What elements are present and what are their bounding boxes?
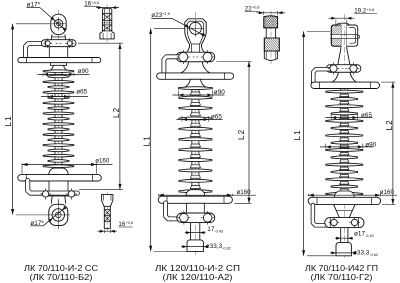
dimension ø160 (insulator 3) bbox=[308, 189, 397, 197]
dimension ø160 (insulator 1) bbox=[22, 158, 113, 174]
svg-text:ø160: ø160 bbox=[95, 158, 110, 165]
dimension L1 (insulator 2) bbox=[142, 28, 187, 251]
insulator 2 bottom arc-horn tube bbox=[166, 203, 182, 219]
insulator 1 core rod bbox=[55, 62, 62, 176]
svg-text:(ЛК 70/110-Г2): (ЛК 70/110-Г2) bbox=[311, 272, 373, 282]
insulator 1 bottom arc-horn tube bbox=[28, 181, 78, 194]
insulator 3 bottom bracket bolts bbox=[329, 217, 360, 228]
dimension ø65 (insulator 3) bbox=[326, 112, 373, 119]
dimension ø65 (insulator 1) bbox=[41, 88, 88, 98]
insulator 2 top clamp bracket bbox=[176, 52, 215, 62]
caption insulator 2 bbox=[155, 263, 240, 282]
dimension L2 (insulator 3) bbox=[381, 82, 396, 205]
insulator 3 centerline bbox=[343, 14, 345, 259]
insulator 1 bottom bracket bolts bbox=[40, 188, 77, 199]
insulator 3 bottom arc-horn tube bbox=[313, 205, 328, 225]
svg-text:L2: L2 bbox=[385, 119, 394, 130]
dimension ø23+1.5 with leader bbox=[151, 12, 205, 37]
dimension ø17* (bottom) with leader bbox=[16, 200, 70, 230]
svg-text:ø90: ø90 bbox=[78, 68, 89, 75]
insulator 3 bottom stem bbox=[341, 228, 348, 243]
insulator 1 top grading plate bbox=[18, 58, 101, 63]
insulator 3 bottom terminal cylinder ø33.3 bbox=[336, 243, 351, 256]
dimension ø33.3-0.62 (insulator 2) bbox=[181, 243, 231, 250]
dimension 17-0.43 (insulator 2) bbox=[185, 226, 223, 234]
insulator 2 bottom bracket bbox=[177, 213, 215, 223]
dimension L2 (insulator 2) bbox=[217, 61, 252, 203]
dimension ø17* (top) with leader bbox=[27, 1, 67, 31]
svg-text:L2: L2 bbox=[237, 129, 246, 140]
insulator 3 neck bbox=[338, 49, 350, 65]
insulator 1 bottom grading plate ø160 bbox=[18, 175, 102, 181]
insulator 1 upper base stub bbox=[51, 63, 67, 66]
insulator 1 bottom boss dome bbox=[49, 168, 68, 175]
insulator 1 bottom fitting block bbox=[49, 181, 68, 196]
dimension ø33.3-0.62 (insulator 3) bbox=[330, 249, 378, 256]
insulator 1 top bracket bolts bbox=[43, 38, 74, 48]
caption insulator 1 bbox=[24, 263, 98, 282]
svg-text:(ЛК 120/110-А2): (ЛК 120/110-А2) bbox=[163, 272, 233, 282]
svg-text:L2: L2 bbox=[112, 107, 121, 118]
svg-text:ø90: ø90 bbox=[365, 141, 376, 148]
dimension 16+0.8 (top detail) bbox=[84, 1, 119, 10]
dimension ø17-0.43 (insulator 3) bbox=[335, 231, 374, 240]
dimension ø90 (insulator 1) bbox=[37, 68, 89, 76]
dimension 22+0.8 (detail) bbox=[245, 5, 285, 15]
insulator 1 top arc-horn tube bbox=[26, 44, 47, 58]
dimension ø90 (insulator 2) bbox=[173, 89, 226, 97]
svg-text:ø90: ø90 bbox=[214, 89, 225, 96]
insulator 2 core rod bbox=[192, 80, 199, 198]
dimension ø90 (insulator 3) bbox=[320, 141, 377, 148]
insulator 3 bottom neck bell bbox=[334, 205, 355, 218]
insulator 2 bottom bracket bolts bbox=[177, 211, 214, 225]
svg-text:ø65: ø65 bbox=[211, 114, 222, 121]
dimension 16+0.8 (bottom detail) bbox=[98, 221, 134, 233]
dimension ø65 (insulator 2) bbox=[177, 114, 223, 122]
dimension L1 (insulator 1) bbox=[4, 24, 50, 215]
dimension ø160 (insulator 2) bbox=[158, 189, 256, 197]
insulator 2 weather sheds stack bbox=[178, 87, 212, 193]
insulator 1 top eye fitting bbox=[51, 14, 66, 40]
svg-text:+0,8: +0,8 bbox=[252, 6, 260, 10]
svg-text:+0,8: +0,8 bbox=[126, 221, 134, 225]
insulator 3 bottom boss dome bbox=[334, 191, 354, 197]
insulator 3 base bell bbox=[332, 72, 357, 82]
caption insulator 3 bbox=[305, 263, 378, 282]
insulator 3 bottom bracket bbox=[325, 218, 364, 228]
insulator 3 top arc-horn tube bbox=[313, 69, 333, 85]
insulator 2 top grading plate bbox=[157, 73, 234, 79]
detail: top clevis side view (insulator 1) bbox=[100, 5, 114, 43]
insulator 1 top eye hole ø17 bbox=[52, 17, 66, 31]
svg-text:L1: L1 bbox=[293, 129, 302, 140]
svg-text:+0,8: +0,8 bbox=[367, 8, 375, 12]
svg-text:+0,8: +0,8 bbox=[92, 1, 100, 5]
insulator 2 top arc-horn tube bbox=[164, 57, 183, 74]
insulator 1 first shed bell dome bbox=[46, 65, 72, 72]
insulator 2 top bracket bolts bbox=[177, 50, 215, 64]
insulator 2 bottom stem bbox=[191, 223, 200, 240]
insulator 1 weather sheds stack bbox=[43, 70, 74, 168]
detail: top tongue side view (insulator 2) bbox=[264, 11, 280, 65]
dimension 19.2+0.8 bbox=[329, 8, 378, 27]
insulator 1 bottom eye neck bbox=[51, 196, 65, 204]
insulator 1 bottom eye fitting bbox=[49, 204, 68, 225]
insulator 3 weather sheds stack bbox=[326, 90, 363, 195]
insulator 1 bottom eye hole ø17 bbox=[52, 209, 64, 221]
svg-text:L1: L1 bbox=[142, 135, 151, 146]
insulator 3 bottom grading plate ø160 bbox=[308, 197, 380, 204]
insulator 2 bottom grading plate ø160 bbox=[158, 196, 232, 203]
insulator 1 centerline bbox=[58, 10, 60, 228]
insulator 2 first shed bell dome bbox=[184, 79, 207, 87]
insulator 3 top socket fitting bbox=[330, 23, 359, 48]
insulator 1 top clamp bracket bbox=[41, 40, 76, 47]
svg-text:ø65: ø65 bbox=[361, 112, 372, 119]
insulator 2 base bell bbox=[181, 62, 210, 73]
svg-text:ø65: ø65 bbox=[76, 88, 87, 95]
insulator 3 top clamp bracket bbox=[326, 65, 361, 73]
dimension L1 (insulator 3) bbox=[293, 31, 336, 255]
insulator 3 core rod bbox=[341, 89, 348, 198]
insulator 2 top oval-eye fitting bbox=[185, 19, 206, 54]
dimension L2 (insulator 1) bbox=[78, 43, 123, 190]
insulator 3 top bracket bolts bbox=[328, 62, 360, 74]
svg-text:L1: L1 bbox=[4, 115, 13, 126]
svg-text:ø160: ø160 bbox=[380, 189, 395, 196]
detail: bottom clevis side view (insulator 1) bbox=[102, 192, 113, 233]
svg-text:(ЛК 70/110-Б2): (ЛК 70/110-Б2) bbox=[30, 272, 93, 282]
insulator 3 top grading plate bbox=[311, 82, 380, 88]
insulator 2 neck bbox=[191, 45, 199, 53]
insulator 2 eye hole ø23 bbox=[187, 20, 204, 37]
insulator 1 top fitting base block bbox=[49, 47, 67, 58]
insulator 2 bottom terminal cylinder ø33.3 bbox=[187, 240, 203, 252]
insulator 2 centerline bbox=[194, 12, 196, 255]
insulator 2 bottom fitting block bbox=[187, 203, 205, 213]
insulator 2 bottom boss dome bbox=[186, 190, 205, 197]
